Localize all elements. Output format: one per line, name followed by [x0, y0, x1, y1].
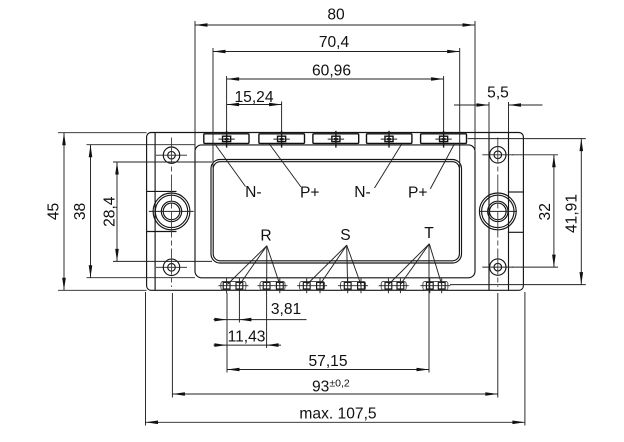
flange right edge line B — [508, 133, 510, 291]
pin pair 5 outline — [381, 282, 406, 290]
screw terminal 4 — [381, 131, 397, 148]
dimension 38 — [72, 145, 92, 278]
terminal tab 2 — [259, 134, 305, 144]
dimension 41,91 — [564, 139, 584, 285]
dimension 45 — [46, 133, 66, 291]
baseplate outline — [147, 133, 524, 291]
svg-text:T: T — [424, 225, 434, 242]
dimension 93 +-0,2 — [172, 378, 497, 396]
leader N- to tab4 — [375, 144, 403, 189]
S leader fan — [307, 245, 361, 284]
pin 4L — [344, 278, 351, 293]
pin pair 6 crosshair — [420, 285, 450, 287]
pin pair 3 crosshair — [297, 285, 327, 287]
leader P+ to tab2 — [269, 144, 301, 188]
lid outer outline — [211, 160, 462, 264]
svg-text:38: 38 — [72, 203, 89, 220]
dimension 15,24 — [227, 89, 282, 106]
dimension 57,15 — [227, 353, 429, 371]
svg-text:60,96: 60,96 — [312, 63, 351, 80]
pin pair 5 crosshair — [379, 285, 409, 287]
dimension 70,4 — [213, 34, 460, 53]
right big mounting hole — [479, 193, 517, 230]
svg-text:28,4: 28,4 — [102, 196, 119, 227]
dimension 11,43 — [214, 329, 282, 347]
svg-text:N-: N- — [354, 184, 370, 201]
svg-text:32: 32 — [537, 203, 554, 220]
pin pair 2 outline — [260, 282, 285, 290]
right small hole top — [482, 147, 513, 163]
svg-text:70,4: 70,4 — [319, 34, 350, 51]
flange right edge line A — [488, 133, 490, 291]
screw terminal 5 — [435, 131, 451, 148]
dimension max. 107,5 — [146, 406, 525, 425]
screw terminal 1 — [218, 131, 234, 148]
leader N- to tab1 — [215, 144, 246, 187]
left small hole bottom — [156, 259, 187, 275]
right small hole bottom — [482, 259, 513, 275]
R leader fan — [227, 246, 279, 285]
pin 6L — [426, 278, 433, 293]
dimension 80 — [195, 7, 475, 27]
pin 6R — [438, 278, 445, 293]
pin 2R — [276, 278, 283, 293]
extension lines left — [58, 133, 212, 291]
pin pair 2 crosshair — [258, 285, 288, 287]
pin pair 3 outline — [300, 282, 325, 290]
svg-text:11,43: 11,43 — [228, 329, 266, 346]
left vertical centerline — [171, 138, 173, 288]
right slot line top — [508, 191, 524, 193]
pin pair 4 crosshair — [338, 285, 368, 287]
svg-text:N-: N- — [245, 184, 261, 201]
pin 1R — [236, 278, 243, 293]
extension lines top — [195, 21, 509, 168]
right vertical centerline — [497, 138, 499, 288]
svg-text:5,5: 5,5 — [487, 85, 509, 102]
svg-text:S: S — [340, 227, 350, 244]
left big mounting hole — [149, 193, 194, 230]
leader P+ to tab5 — [430, 144, 454, 189]
case outline — [195, 145, 475, 278]
dimension 5,5 — [454, 85, 543, 107]
lid inner outline — [213, 162, 459, 261]
svg-text:41,91: 41,91 — [564, 194, 581, 233]
svg-text:15,24: 15,24 — [234, 89, 273, 106]
pin pair 6 outline — [423, 282, 448, 290]
screw terminal 2 — [273, 131, 289, 148]
dimension 3,81 — [214, 301, 307, 321]
right slot line bottom — [508, 231, 524, 233]
terminal tab 1 — [204, 134, 249, 144]
flange left step line — [154, 133, 156, 291]
svg-text:3,81: 3,81 — [271, 301, 301, 318]
svg-text:45: 45 — [46, 203, 63, 221]
pin 4R — [358, 278, 365, 293]
pin 3R — [317, 278, 324, 293]
left small hole top — [156, 147, 187, 163]
pin 2L — [263, 278, 270, 293]
pin pair 4 outline — [341, 282, 366, 290]
pin 1L — [223, 278, 230, 293]
left slot line top — [147, 190, 177, 192]
left slot line bottom — [147, 231, 177, 233]
screw terminal 3 — [328, 131, 344, 148]
pin 5R — [397, 278, 404, 293]
terminal tab 5 — [421, 134, 467, 144]
svg-text:80: 80 — [327, 7, 345, 24]
terminal tab 3 — [313, 134, 359, 144]
svg-text:R: R — [260, 228, 271, 245]
dimension 32 — [537, 155, 556, 267]
terminal tab 4 — [367, 134, 412, 144]
extension lines right — [450, 139, 586, 285]
T leader fan — [389, 244, 442, 285]
svg-text:max. 107,5: max. 107,5 — [299, 406, 376, 423]
svg-text:P+: P+ — [300, 184, 320, 201]
dimension 28,4 — [102, 162, 119, 261]
svg-text:P+: P+ — [408, 184, 428, 201]
pin pair 1 crosshair — [218, 285, 248, 287]
extension lines bottom — [146, 244, 525, 426]
pin 5L — [385, 278, 392, 293]
dimension 60,96 — [227, 63, 444, 81]
pin 3L — [303, 278, 310, 293]
pin pair 1 outline — [221, 282, 246, 290]
svg-text:57,15: 57,15 — [308, 353, 347, 370]
